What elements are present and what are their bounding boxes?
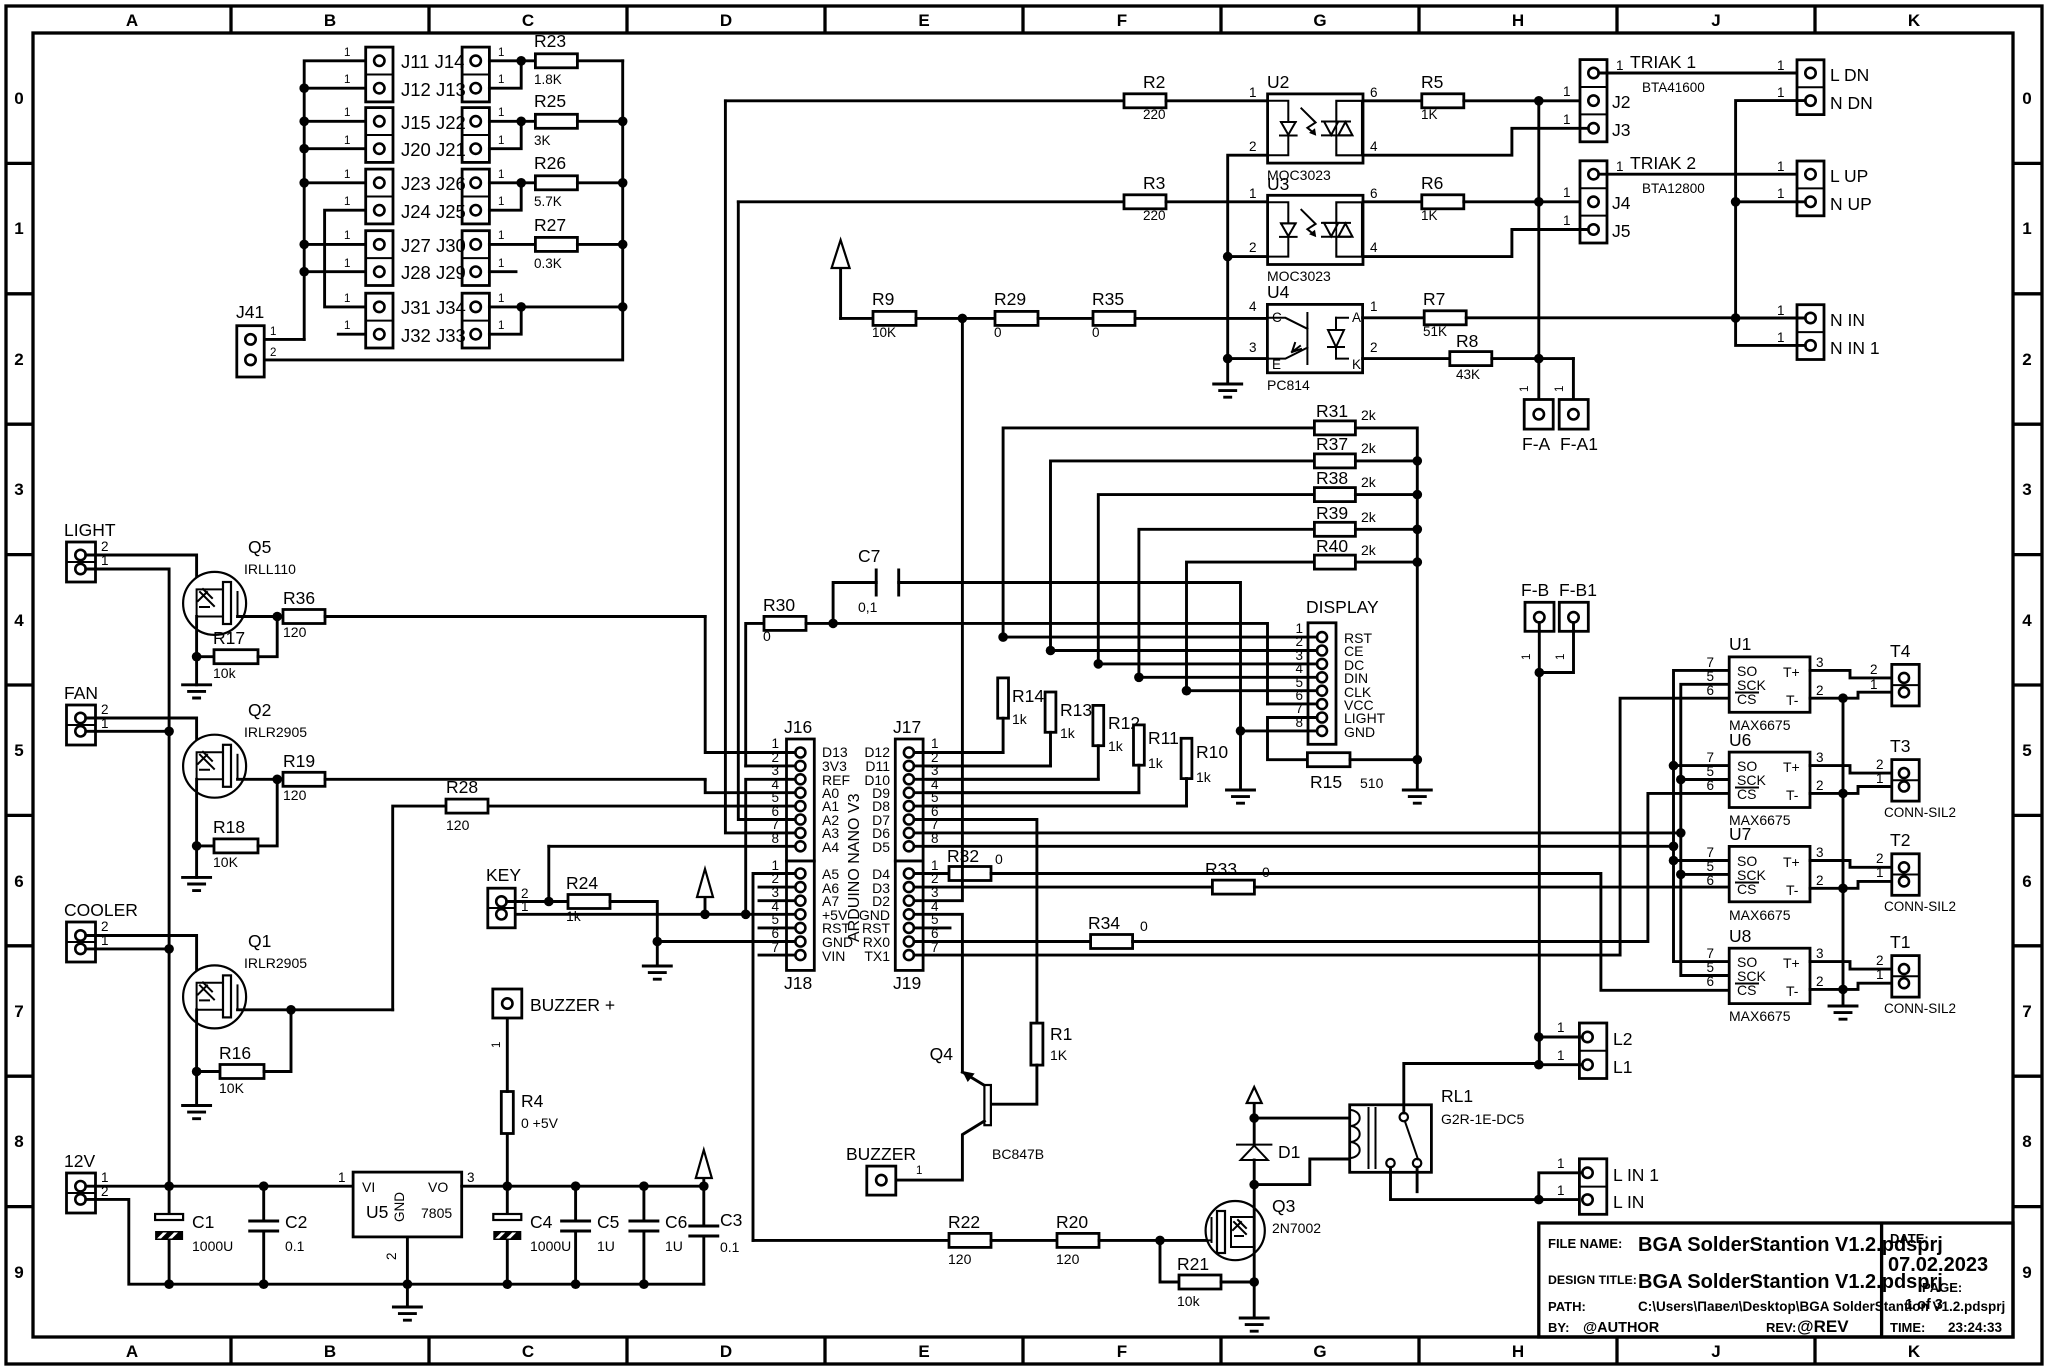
svg-text:2: 2	[2022, 350, 2031, 369]
svg-text:9: 9	[14, 1263, 23, 1282]
svg-text:1: 1	[344, 107, 350, 119]
svg-text:F-B1: F-B1	[1559, 580, 1597, 600]
wire FAN pin2 to Q2 drain	[86, 718, 197, 752]
svg-text:J31 J34: J31 J34	[401, 297, 466, 318]
svg-text:G2R-1E-DC5: G2R-1E-DC5	[1441, 1111, 1524, 1127]
wire D11 to R13	[914, 764, 1051, 767]
svg-text:R14: R14	[1012, 686, 1044, 706]
svg-text:5: 5	[14, 741, 23, 760]
svg-text:R39: R39	[1316, 503, 1348, 523]
svg-text:T4: T4	[1890, 641, 1911, 661]
wire VO +5V rail	[462, 1185, 704, 1188]
svg-text:8: 8	[14, 1132, 23, 1151]
power supply section 12V U5 7805 C1-C6 C3 R4 BUZZER+	[64, 989, 742, 1320]
svg-text:6: 6	[1706, 683, 1714, 698]
connector J27/J28	[366, 231, 393, 286]
wire U7 T+ to T2	[1810, 861, 1899, 868]
svg-text:10k: 10k	[213, 665, 237, 681]
svg-text:J12 J13: J12 J13	[401, 79, 466, 100]
svg-text:1: 1	[498, 320, 504, 332]
svg-text:A: A	[1352, 310, 1361, 325]
svg-text:1: 1	[1777, 303, 1785, 318]
svg-text:5: 5	[1706, 960, 1714, 975]
svg-text:T2: T2	[1890, 830, 1910, 850]
svg-text:J: J	[1711, 1342, 1720, 1361]
svg-text:1k: 1k	[1012, 711, 1028, 727]
relay RL1 G2R-1E-DC5	[1350, 1105, 1432, 1173]
capacitor C1 1000U electrolytic	[168, 1186, 171, 1214]
svg-text:1: 1	[344, 258, 350, 270]
wire D5 to SO bus	[914, 845, 1674, 848]
IC U7 MAX6675	[1729, 846, 1810, 901]
resistor R24	[568, 895, 610, 909]
wire J14/J13 join to R23	[489, 61, 535, 88]
svg-text:1: 1	[344, 169, 350, 181]
svg-text:A: A	[126, 1342, 138, 1361]
wire SCK bus	[1681, 684, 1729, 975]
svg-text:1: 1	[1616, 58, 1624, 73]
pin number 1 labels	[344, 47, 504, 332]
svg-text:2k: 2k	[1361, 474, 1377, 490]
svg-text:J5: J5	[1612, 221, 1630, 241]
svg-text:COOLER: COOLER	[64, 900, 138, 920]
svg-text:1: 1	[1557, 1156, 1565, 1171]
stub RST J18	[759, 926, 795, 929]
wire bus A (left pins common)	[304, 61, 366, 340]
svg-text:R22: R22	[948, 1212, 980, 1232]
wire D8 to R10	[914, 805, 1187, 808]
svg-text:Q5: Q5	[248, 537, 271, 557]
svg-text:CONN-SIL2: CONN-SIL2	[1884, 1001, 1956, 1016]
svg-text:1: 1	[1870, 677, 1878, 692]
svg-text:4: 4	[2022, 611, 2032, 630]
svg-text:5: 5	[1706, 859, 1714, 874]
svg-text:J24 J25: J24 J25	[401, 201, 466, 222]
pad F-B	[1525, 602, 1554, 631]
svg-text:R19: R19	[283, 751, 315, 771]
svg-text:1: 1	[1563, 84, 1571, 99]
svg-text:J4: J4	[1612, 193, 1631, 213]
svg-text:2k: 2k	[1361, 440, 1377, 456]
connector N IN / N IN 1	[1797, 305, 1824, 360]
svg-text:51K: 51K	[1423, 324, 1447, 339]
svg-text:L1: L1	[1613, 1057, 1632, 1077]
svg-text:N IN: N IN	[1830, 310, 1865, 330]
svg-text:VO: VO	[428, 1179, 448, 1195]
wire 12V pin2 to gnd rail	[86, 1199, 704, 1284]
svg-text:R18: R18	[213, 817, 245, 837]
svg-text:0.3K: 0.3K	[534, 256, 562, 271]
svg-text:R10: R10	[1196, 742, 1228, 762]
connector J41	[237, 326, 264, 377]
wire U7 SO / SCK	[1674, 861, 1730, 875]
svg-text:7: 7	[1706, 946, 1714, 961]
svg-text:E: E	[918, 11, 929, 30]
svg-text:120: 120	[283, 787, 307, 803]
stub VIN	[759, 954, 795, 957]
connector L UP / N UP	[1797, 161, 1824, 216]
svg-text:1: 1	[1777, 159, 1785, 174]
transistor Q3 2N7002	[1206, 1201, 1265, 1260]
svg-text:3: 3	[1249, 340, 1257, 355]
power +5V arrow above C3	[702, 1178, 705, 1186]
svg-text:6: 6	[1370, 186, 1378, 201]
svg-text:FAN: FAN	[64, 683, 98, 703]
svg-text:GND: GND	[1344, 724, 1375, 740]
resistor R36	[277, 615, 283, 618]
svg-text:L DN: L DN	[1830, 65, 1869, 85]
svg-text:TX1: TX1	[864, 948, 890, 964]
resistor R37	[1051, 461, 1315, 651]
svg-text:U1: U1	[1729, 634, 1751, 654]
svg-text:1: 1	[1876, 771, 1884, 786]
diode D1	[1249, 1113, 1259, 1123]
svg-text:07.02.2023: 07.02.2023	[1888, 1254, 1988, 1276]
svg-text:23:24:33: 23:24:33	[1948, 1320, 2003, 1335]
power +5V arrow on KEY line	[704, 897, 707, 914]
svg-text:J27 J30: J27 J30	[401, 235, 466, 256]
pin numbers J17/J19 right	[931, 736, 939, 955]
jumper block J11-J34 with resistors R23 R25 R26 R27 and connector J41	[236, 31, 628, 377]
resistor R12	[1093, 705, 1104, 745]
display pull-up network R31 R37-R40, R30, C7, DISPLAY connector, R10-R15	[746, 401, 1432, 806]
svg-text:1: 1	[270, 326, 276, 338]
svg-text:1: 1	[931, 736, 939, 751]
svg-text:G: G	[1313, 1342, 1326, 1361]
svg-text:2: 2	[101, 919, 109, 934]
svg-text:8: 8	[2022, 1132, 2031, 1151]
resistor R35	[1093, 311, 1135, 325]
svg-text:H: H	[1512, 1342, 1524, 1361]
stub A7	[759, 899, 795, 902]
svg-text:510: 510	[1360, 775, 1384, 791]
svg-text:1: 1	[1249, 186, 1257, 201]
svg-text:FILE NAME:: FILE NAME:	[1548, 1236, 1622, 1251]
wire GND row J18	[657, 940, 795, 943]
resistor R18	[192, 841, 202, 851]
svg-text:6: 6	[1706, 873, 1714, 888]
wire A4 from KEY column	[549, 845, 795, 848]
svg-text:1U: 1U	[665, 1238, 683, 1254]
pad BUZZER +	[493, 989, 522, 1018]
svg-text:0.1: 0.1	[285, 1238, 305, 1254]
svg-text:1: 1	[344, 320, 350, 332]
svg-text:C1: C1	[192, 1212, 214, 1232]
connector L DN / N DN	[1797, 60, 1824, 115]
svg-text:R2: R2	[1143, 72, 1165, 92]
wire R3 line A2col to U3 pin1	[738, 200, 1124, 203]
optocoupler section U2 U3 U4 with R2 R3 R5 R6 R7 R8 R9 R29 R35	[725, 72, 1735, 397]
wire coil top	[1254, 1117, 1350, 1120]
svg-text:J23 J26: J23 J26	[401, 173, 466, 194]
capacitor C3 0.1	[702, 1186, 705, 1226]
svg-text:1: 1	[1777, 58, 1785, 73]
svg-text:10k: 10k	[1177, 1293, 1201, 1309]
svg-text:12V: 12V	[64, 1151, 95, 1171]
svg-text:R7: R7	[1423, 289, 1445, 309]
resistor R8	[1363, 357, 1450, 360]
wire J22/J21 join to R25	[489, 121, 535, 148]
svg-text:BY:: BY:	[1548, 1320, 1569, 1335]
wire A3 from R2 column	[725, 101, 795, 833]
svg-text:U8: U8	[1729, 926, 1751, 946]
svg-text:1: 1	[1876, 865, 1884, 880]
svg-text:1: 1	[498, 135, 504, 147]
svg-text:1: 1	[101, 1170, 109, 1185]
svg-text:R34: R34	[1088, 913, 1120, 933]
svg-text:6: 6	[1706, 974, 1714, 989]
svg-text:J15 J22: J15 J22	[401, 112, 466, 133]
connector DISPLAY	[1308, 623, 1336, 745]
svg-text:R13: R13	[1060, 700, 1092, 720]
svg-text:1: 1	[1563, 213, 1571, 228]
svg-text:1: 1	[1777, 186, 1785, 201]
svg-text:1: 1	[498, 169, 504, 181]
resistor R19	[277, 778, 283, 781]
wire J41 pin1 to bus A	[264, 338, 304, 341]
node gate line junction	[1155, 1236, 1165, 1246]
svg-text:R33: R33	[1205, 859, 1237, 879]
svg-text:4: 4	[1370, 240, 1378, 255]
capacitor C6 1U	[642, 1186, 645, 1221]
svg-text:F-A1: F-A1	[1560, 434, 1598, 454]
svg-text:120: 120	[283, 624, 307, 640]
svg-text:H: H	[1512, 11, 1524, 30]
svg-text:2: 2	[1870, 662, 1878, 677]
pad F-A1	[1572, 359, 1575, 400]
svg-text:CONN-SIL2: CONN-SIL2	[1884, 805, 1956, 820]
resistor R39	[1139, 529, 1315, 677]
wire 3V3 from R30	[746, 764, 795, 767]
resistor R4 vertical	[506, 1134, 509, 1187]
svg-text:0: 0	[1092, 325, 1100, 340]
svg-text:1: 1	[1876, 967, 1884, 982]
svg-text:N IN 1: N IN 1	[1830, 338, 1880, 358]
svg-text:PAGE:: PAGE:	[1922, 1280, 1962, 1295]
ground under Q2	[195, 846, 198, 878]
svg-text:6: 6	[1706, 778, 1714, 793]
power VCC arrow (R9)	[839, 268, 842, 318]
wire F-B F-B1 common down to L2	[1539, 623, 1573, 1065]
wire U6 T+ to T3	[1810, 766, 1899, 774]
svg-text:1: 1	[2022, 219, 2031, 238]
resistor R10	[1181, 738, 1192, 778]
node bus A junctions	[299, 83, 309, 93]
wire J34/J33 join to bus C	[489, 307, 622, 334]
wire pin1 bus down left rail	[86, 569, 169, 1186]
svg-text:T-: T-	[1786, 983, 1799, 999]
svg-text:1: 1	[498, 230, 504, 242]
svg-text:MAX6675: MAX6675	[1729, 907, 1791, 923]
wire D7 to R1 column	[914, 820, 1037, 1024]
ground under Q5	[183, 685, 211, 698]
pin numbers J16/J18 left	[771, 736, 779, 955]
connector 12V	[67, 1173, 96, 1213]
svg-text:1: 1	[344, 196, 350, 208]
svg-text:Q4: Q4	[930, 1044, 954, 1064]
connector FAN	[67, 705, 96, 745]
wire LIGHT pin2 to Q5 drain	[86, 555, 197, 589]
svg-text:0: 0	[1262, 864, 1270, 880]
resistor R30	[746, 623, 764, 766]
svg-text:T1: T1	[1890, 932, 1910, 952]
wire U1 T- rail	[1810, 692, 1899, 698]
svg-text:9: 9	[2022, 1263, 2031, 1282]
wire U7 T- rail	[1810, 881, 1899, 888]
wire D4 through R32 to U8 CS	[914, 872, 949, 875]
svg-text:RL1: RL1	[1441, 1086, 1473, 1106]
transistor Q2 IRLR2905	[183, 735, 246, 798]
svg-text:E: E	[918, 1342, 929, 1361]
wire U2 pin2 to gnd bus	[1228, 155, 1268, 358]
connector J26/J25	[462, 169, 489, 224]
wire REF stub to +5V column	[746, 779, 795, 914]
svg-text:0: 0	[14, 89, 23, 108]
wire L IN 1 joins L IN line	[1539, 1173, 1583, 1200]
wire KEY pin2 to R24	[507, 900, 568, 903]
svg-text:5: 5	[2022, 741, 2031, 760]
svg-text:LIGHT: LIGHT	[64, 520, 116, 540]
svg-text:R35: R35	[1092, 289, 1124, 309]
resistor R40	[1187, 562, 1315, 691]
svg-text:1: 1	[1249, 85, 1257, 100]
svg-text:2: 2	[14, 350, 23, 369]
svg-text:N DN: N DN	[1830, 93, 1873, 113]
opto-triac U3 MOC3023	[1268, 195, 1363, 264]
svg-text:2: 2	[1876, 851, 1884, 866]
svg-text:DISPLAY: DISPLAY	[1306, 597, 1379, 617]
svg-text:J: J	[1711, 11, 1720, 30]
svg-text:C: C	[522, 11, 534, 30]
svg-text:REV:: REV:	[1766, 1320, 1796, 1335]
wire N UP junction	[1736, 200, 1806, 203]
svg-text:T-: T-	[1786, 882, 1799, 898]
power VCC arrow above D1	[1253, 1103, 1256, 1118]
stub A6	[759, 886, 795, 889]
svg-text:IRLR2905: IRLR2905	[244, 955, 307, 971]
wire display CLK line	[1187, 689, 1318, 692]
svg-text:TIME:: TIME:	[1890, 1320, 1925, 1335]
svg-text:5: 5	[1706, 669, 1714, 684]
svg-text:2: 2	[101, 702, 109, 717]
svg-text:J16: J16	[784, 717, 812, 737]
wire relay NC contact to L IN	[1391, 1167, 1583, 1199]
svg-text:43K: 43K	[1456, 367, 1480, 382]
svg-text:7: 7	[1706, 750, 1714, 765]
ground under Q3	[1253, 1282, 1256, 1318]
wire display GND line	[1241, 729, 1318, 732]
connector COOLER	[67, 922, 96, 962]
resistor R20	[1057, 1233, 1099, 1247]
wire U1 T+ to T4	[1810, 670, 1899, 678]
header J18	[787, 861, 815, 970]
connector J30/J29	[462, 231, 489, 286]
svg-text:T+: T+	[1783, 955, 1800, 971]
svg-text:4: 4	[1249, 299, 1257, 314]
wire Q5 source to ground	[195, 617, 198, 685]
svg-text:10K: 10K	[213, 854, 239, 870]
resistor R5	[1363, 99, 1422, 102]
wire J3 to U2 pin4	[1363, 128, 1588, 155]
svg-text:3: 3	[1816, 655, 1824, 670]
svg-text:1: 1	[1563, 112, 1571, 127]
resistor R3	[1124, 195, 1166, 209]
svg-text:F-B: F-B	[1521, 580, 1549, 600]
resistor R28	[393, 806, 446, 1010]
svg-text:5.7K: 5.7K	[534, 194, 562, 209]
wire D12 to R14	[914, 751, 1003, 754]
resistor R33	[1212, 880, 1254, 894]
svg-text:K: K	[1908, 1342, 1921, 1361]
svg-text:U2: U2	[1267, 72, 1289, 92]
wire D9 to R11	[914, 791, 1139, 794]
connector TRIAK 1 (J2 J3)	[1539, 99, 1580, 102]
resistor R26	[535, 176, 577, 190]
svg-text:T-: T-	[1786, 787, 1799, 803]
svg-text:1: 1	[1563, 185, 1571, 200]
wire D13 from R36 line	[705, 617, 795, 753]
svg-text:1k: 1k	[1196, 769, 1212, 785]
resistor R25	[535, 114, 577, 128]
svg-text:3: 3	[2022, 480, 2031, 499]
wire U6 T- rail	[1810, 787, 1899, 794]
svg-text:1: 1	[1555, 654, 1567, 660]
wire J5 to U3 pin4	[1363, 230, 1588, 257]
svg-text:BTA12800: BTA12800	[1642, 181, 1705, 196]
svg-text:F-A: F-A	[1522, 434, 1551, 454]
resistor R15	[1307, 753, 1350, 767]
svg-text:1: 1	[344, 135, 350, 147]
svg-text:GND: GND	[392, 1192, 407, 1222]
svg-text:1K: 1K	[1050, 1047, 1068, 1063]
svg-text:3K: 3K	[534, 133, 551, 148]
wire J41 pin2 to bus C	[264, 61, 623, 360]
svg-text:J3: J3	[1612, 120, 1630, 140]
wire D2 to zero-cross node	[914, 318, 962, 900]
resistor R34	[1091, 935, 1133, 949]
wire A0 from R19 step	[705, 780, 795, 793]
connector T1	[1892, 956, 1919, 998]
svg-text:2: 2	[1876, 953, 1884, 968]
svg-text:1: 1	[1557, 1183, 1565, 1198]
svg-text:R24: R24	[566, 873, 598, 893]
connector J23/J24	[366, 169, 393, 224]
svg-text:R28: R28	[446, 777, 478, 797]
svg-text:R4: R4	[521, 1091, 544, 1111]
svg-text:2: 2	[1249, 139, 1257, 154]
svg-text:R37: R37	[1316, 434, 1348, 454]
svg-text:1k: 1k	[566, 908, 582, 924]
svg-text:10K: 10K	[872, 325, 896, 340]
wire J29 stub	[489, 270, 516, 273]
wire Q1 source to ground	[195, 1010, 198, 1072]
wire TRIAK1 pin1 to L DN	[1599, 72, 1797, 75]
svg-text:120: 120	[1056, 1251, 1080, 1267]
resistor R17	[192, 652, 202, 662]
resistor R11	[1134, 725, 1145, 765]
node R9/R29 junction to D2 column	[958, 314, 968, 324]
svg-text:R23: R23	[534, 31, 566, 51]
svg-text:7: 7	[14, 1002, 23, 1021]
wire U8 T- rail	[1810, 983, 1899, 989]
svg-text:1: 1	[498, 107, 504, 119]
resistor R2	[1124, 94, 1166, 108]
header J19	[895, 861, 923, 970]
svg-text:1: 1	[498, 74, 504, 86]
wire SO bus	[1674, 670, 1730, 961]
wire A2 from R3 column	[738, 202, 795, 820]
svg-text:J17: J17	[893, 717, 921, 737]
